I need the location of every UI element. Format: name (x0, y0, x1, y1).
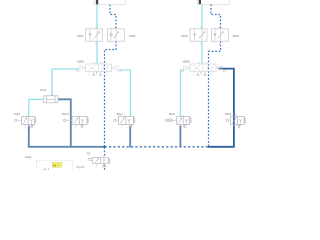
flow control valve RN2 (108, 29, 125, 41)
flow control valve RN4 (212, 29, 229, 41)
wire: SQ2 bottom to bus corner (steel blue) (29, 126, 105, 147)
port 1 stub QM1 (cyan) (96, 72, 98, 74)
limit valve BG4 (3/2 roller) (114, 117, 135, 128)
wire: BG4 bottom to bus (steel blue) (129, 126, 131, 148)
wire: bus junction down to G1 valve and below G1 (dashed blue) (104, 147, 106, 157)
svg-text:-RN2: -RN2 (129, 34, 136, 38)
pilot left QM2 (184, 66, 190, 70)
valve QM2 5/2 way, body (182, 64, 226, 75)
node: bus junction at G1 (104, 146, 106, 148)
svg-text:54.7: 54.7 (53, 163, 59, 167)
svg-text:-QM1: -QM1 (77, 59, 85, 63)
flow control valve RN3 (190, 29, 207, 41)
cylinder A1 (double acting, cut off at top) (94, 0, 126, 4)
svg-text:-SQ1: -SQ1 (25, 155, 32, 159)
svg-text:-RN3: -RN3 (181, 34, 188, 38)
port numbers small (RN row) (24, 27, 241, 168)
wire: pilot line cylinder A1 right port to RN2 (dashed blue) (105, 5, 221, 171)
wire: cylinder A2 left port to RN3 (cyan) (201, 5, 203, 30)
svg-text:-SQ2: -SQ2 (13, 112, 20, 116)
wire: QM1 right port to BG4 top (cyan) (119, 70, 131, 117)
port numbers QM2 (193, 62, 213, 76)
port numbers QM1 (88, 62, 108, 76)
port 1 stub QM2 (cyan) (200, 72, 202, 74)
svg-text:-BG2: -BG2 (168, 112, 175, 116)
limit valve BG2 (3/2 roller) (165, 117, 191, 128)
pilot right QM1 (112, 66, 119, 70)
limit valve BG1 (3/2 roller) (226, 117, 246, 128)
annotation value tag (yellow) (52, 162, 62, 167)
svg-text:-QM2: -QM2 (182, 59, 190, 63)
limit valve BG3 (3/2 roller) (64, 117, 89, 128)
svg-text:-G1: -G1 (86, 152, 91, 156)
wire: BG2 bottom to bus (steel blue) (179, 126, 181, 148)
wire: pilot line cylinder A2 right port to RN4 (dashed blue) (211, 5, 221, 30)
svg-text:-RN1: -RN1 (77, 34, 84, 38)
wire: RN1 to QM1 port 4 (cyan) (96, 41, 98, 64)
pilot left QM1 (79, 66, 86, 70)
limit valve SQ2 (3/2 roller) (15, 117, 36, 128)
valve G1 (3/2 push button) (88, 158, 110, 168)
port ticks QM2 (194, 63, 212, 73)
exhausts below QM2 (197, 72, 200, 75)
subcircuit SQ1 (dashed box, cut off at bottom) (37, 161, 73, 173)
wire: RN3 to QM2 port 4 (cyan) (201, 41, 203, 64)
svg-text:-BG1: -BG1 (225, 112, 232, 116)
wire: KH1 right port to BG3 and down to bus (steel blue) (29, 99, 181, 147)
shuttle valve KH1 (44, 94, 59, 103)
wire: RN2 to QM1 port 2, down through QM1 to bus junction (dashed blue) (105, 41, 117, 147)
wire: dashed supply bus segment (dashed steel) (105, 146, 209, 148)
wire: RN4 to QM2, down through QM2 to bus junction (dashed blue) (209, 41, 221, 147)
cylinder A2 (double acting, cut off at top) (198, 0, 230, 4)
wire: QM2 left pilot to BG2 top (cyan) (180, 70, 183, 117)
flow control valve RN1 (86, 29, 103, 41)
wire: QM2 right pilot to BG1 and bus right segment (dark blue) (208, 69, 234, 147)
svg-text:-RN4: -RN4 (232, 34, 239, 38)
wire: cylinder A1 left port to RN1 (cyan) (29, 5, 202, 117)
port ticks QM1 (90, 63, 108, 73)
svg-text:-BG4: -BG4 (116, 112, 123, 116)
pilot right QM2 (216, 66, 223, 70)
valve QM1 5/2 way, body (77, 64, 121, 75)
svg-text:-KH1: -KH1 (40, 88, 47, 92)
wire: QM1 left pilot to KH1 top (cyan) (52, 69, 79, 96)
tiny valve fragment inside SQ1 box (43, 168, 49, 170)
svg-text:-BG3: -BG3 (62, 112, 69, 116)
port ticks RN boxes (90, 28, 215, 43)
wire: KH1 left port to SQ2 top (cyan) (29, 99, 44, 116)
exhausts below QM1 (92, 72, 95, 75)
svg-text:-SQC1: -SQC1 (76, 165, 86, 169)
